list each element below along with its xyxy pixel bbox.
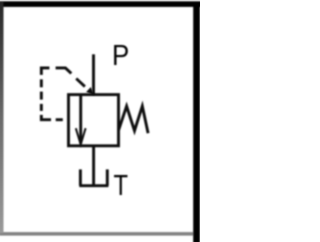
border frame bottom bbox=[0, 232, 193, 236]
border frame top bbox=[0, 1, 201, 7]
pilot dash v3 bbox=[40, 104, 43, 111]
port P line bbox=[92, 54, 95, 95]
flow path arrowhead bbox=[76, 128, 86, 144]
pilot dash h2 top, bending into diagonal bbox=[56, 68, 72, 74]
tank bottom bbox=[79, 184, 108, 187]
pilot dashed line top corner bbox=[41, 68, 49, 75]
svg-text:P: P bbox=[112, 39, 129, 72]
border frame right bbox=[193, 2, 200, 242]
pilot dashed line bottom corner bbox=[41, 115, 51, 120]
tank right wall bbox=[106, 169, 109, 185]
pilot dash v2 bbox=[40, 92, 43, 100]
spring bbox=[119, 106, 149, 133]
tank left wall bbox=[79, 169, 82, 185]
pilot dash h1 bbox=[56, 118, 63, 121]
border frame left bbox=[0, 2, 4, 233]
pilot dash diag2 bbox=[76, 79, 85, 87]
port T line bbox=[92, 146, 95, 187]
pilot line arrowhead bbox=[87, 88, 94, 95]
pilot dash v1 bbox=[40, 79, 43, 87]
valve body square bbox=[69, 95, 119, 146]
flow path arrow shaft bbox=[79, 95, 82, 143]
svg-text:T: T bbox=[114, 169, 129, 202]
